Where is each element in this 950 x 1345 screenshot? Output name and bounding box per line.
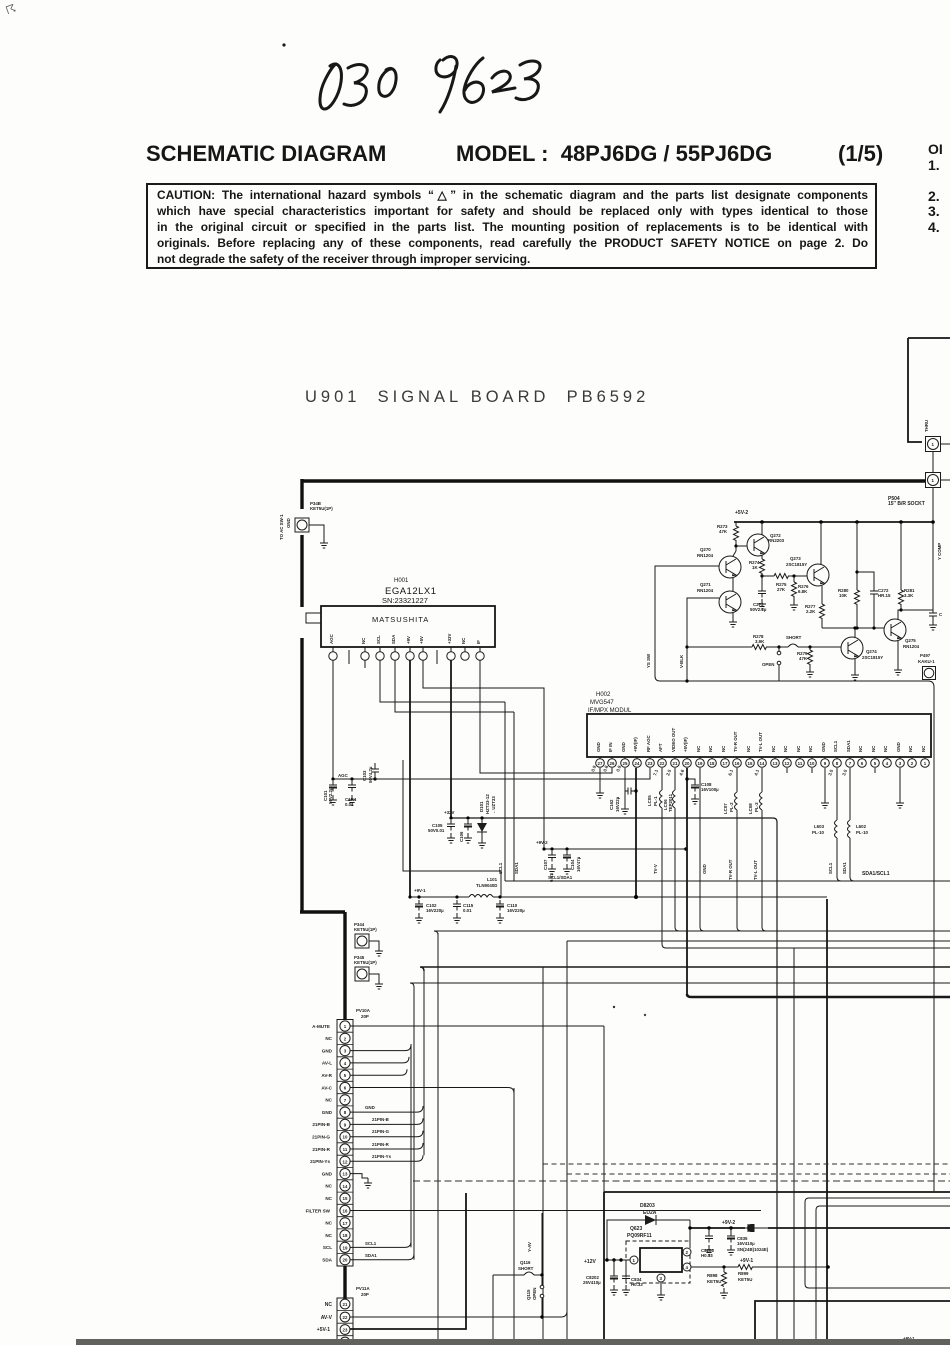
svg-text:R898: R898 bbox=[707, 1273, 718, 1278]
svg-text:20: 20 bbox=[343, 1258, 348, 1263]
svg-text:12: 12 bbox=[785, 761, 790, 766]
wire P345 gnd bbox=[369, 974, 379, 979]
svg-text:GND: GND bbox=[322, 1171, 333, 1176]
inner board corner bbox=[755, 1301, 950, 1345]
svg-text:R899: R899 bbox=[738, 1271, 749, 1276]
svg-text:Y-AV: Y-AV bbox=[527, 1242, 532, 1252]
svg-text:C: C bbox=[939, 612, 943, 617]
wire pin13 gnd bbox=[350, 1174, 368, 1178]
svg-text:19: 19 bbox=[343, 1245, 348, 1250]
svg-text:Q623: Q623 bbox=[630, 1226, 642, 1232]
wire pin3 bbox=[350, 1045, 411, 1051]
svg-text:47K: 47K bbox=[799, 656, 808, 661]
capacitor C1R4 bbox=[348, 781, 356, 792]
svg-text:NC: NC bbox=[721, 745, 726, 752]
wire video out vertical bbox=[675, 808, 679, 931]
svg-text:50V2.2µ: 50V2.2µ bbox=[328, 787, 333, 804]
svg-text:D8203: D8203 bbox=[640, 1203, 655, 1209]
svg-text:+9V-1: +9V-1 bbox=[740, 1258, 753, 1264]
svg-text:SHORT: SHORT bbox=[786, 635, 802, 640]
svg-text:16: 16 bbox=[343, 1209, 348, 1214]
wire SCL1 riser bbox=[504, 702, 506, 881]
svg-text:NC: NC bbox=[808, 745, 813, 752]
capacitor C102 bbox=[415, 900, 423, 911]
svg-text:+5V: +5V bbox=[419, 636, 424, 644]
resistor R276 bbox=[792, 574, 795, 577]
caution notice box bbox=[146, 183, 877, 269]
svg-text:11: 11 bbox=[343, 1147, 348, 1152]
svg-text:3.5: 3.5 bbox=[841, 768, 848, 776]
svg-text:SDA1/SCL1: SDA1/SCL1 bbox=[862, 871, 890, 877]
wire V-BLK branch bbox=[687, 598, 719, 681]
svg-text:RN2203: RN2203 bbox=[768, 538, 785, 543]
svg-text:+5V-1: +5V-1 bbox=[317, 1327, 330, 1333]
svg-text:23: 23 bbox=[343, 1328, 348, 1333]
svg-text:KAKU-1: KAKU-1 bbox=[918, 659, 935, 664]
svg-text:+9V-1: +9V-1 bbox=[414, 888, 426, 893]
capacitor C108 bbox=[685, 777, 688, 780]
svg-text:TV-L OUT: TV-L OUT bbox=[758, 732, 763, 752]
node bus603 bbox=[602, 996, 604, 998]
wire pin24 GND-V bbox=[350, 1341, 610, 1343]
svg-text:IF/MPX MODUL: IF/MPX MODUL bbox=[588, 708, 632, 714]
resistor R279 bbox=[808, 645, 811, 648]
svg-text:2SC1815Y: 2SC1815Y bbox=[786, 562, 807, 567]
wire pin3 gnd bbox=[899, 768, 901, 798]
svg-text:C103: C103 bbox=[362, 770, 367, 781]
wire vertical x414 riser bbox=[413, 987, 415, 1260]
svg-text:SDA1: SDA1 bbox=[365, 1253, 377, 1258]
svg-text:15: 15 bbox=[748, 761, 753, 766]
svg-text:NC: NC bbox=[325, 1036, 332, 1041]
svg-text:PL-1: PL-1 bbox=[653, 796, 658, 806]
inductor L603 bbox=[836, 768, 838, 820]
svg-text:IF IN: IF IN bbox=[608, 742, 613, 752]
capacitor C115 bbox=[453, 900, 461, 911]
svg-text:GND: GND bbox=[596, 742, 601, 752]
svg-text:GND: GND bbox=[821, 742, 826, 752]
svg-text:21PIN-Ys: 21PIN-Ys bbox=[310, 1159, 330, 1164]
svg-text:NC: NC bbox=[771, 745, 776, 752]
wire loop1 tail bbox=[933, 932, 935, 1191]
svg-text:+9V-2: +9V-2 bbox=[536, 840, 548, 845]
svg-text:←UZT33: ←UZT33 bbox=[491, 796, 496, 814]
wire mute row bbox=[687, 646, 752, 648]
svg-text:Q275: Q275 bbox=[905, 638, 916, 643]
svg-text:21PIN-B: 21PIN-B bbox=[312, 1122, 330, 1127]
wire Q273 emitter to R277 bbox=[821, 586, 823, 604]
svg-text:25: 25 bbox=[623, 761, 628, 766]
svg-text:+5V(IF): +5V(IF) bbox=[683, 737, 688, 752]
wire x493 vertical bbox=[492, 1275, 494, 1345]
wire pin19 SCL1 bbox=[350, 1241, 411, 1247]
svg-text:NC: NC bbox=[908, 745, 913, 752]
svg-text:SDA1: SDA1 bbox=[514, 862, 519, 874]
wire vertical x794 bbox=[793, 948, 795, 1345]
svg-text:NC: NC bbox=[325, 1196, 332, 1201]
svg-text:17: 17 bbox=[723, 761, 728, 766]
svg-text:LC08: LC08 bbox=[748, 803, 753, 814]
inductor LC05 bbox=[661, 768, 663, 790]
svg-text:21: 21 bbox=[673, 761, 678, 766]
transistor Q275 bbox=[884, 619, 906, 641]
capacitor C107 bbox=[548, 851, 556, 862]
svg-text:11: 11 bbox=[798, 761, 803, 766]
svg-text:21PIN-G: 21PIN-G bbox=[372, 1129, 390, 1134]
svg-text:PV10A: PV10A bbox=[356, 1008, 371, 1013]
wire pin1 riser bbox=[603, 1026, 605, 1192]
svg-text:15: 15 bbox=[343, 1196, 348, 1201]
svg-text:AV-R: AV-R bbox=[321, 1073, 332, 1078]
wire loop A bbox=[805, 1198, 950, 1288]
svg-text:26: 26 bbox=[610, 761, 615, 766]
wire Q271 emitter to ground bbox=[732, 613, 734, 617]
svg-text:50V2.2µ: 50V2.2µ bbox=[750, 607, 767, 612]
svg-text:7.1: 7.1 bbox=[652, 768, 659, 776]
diode D8203 bbox=[607, 1220, 690, 1260]
svg-text:19: 19 bbox=[698, 761, 703, 766]
capacitor C106 bbox=[464, 820, 472, 831]
board title bbox=[305, 388, 649, 407]
svg-text:SDA: SDA bbox=[391, 634, 396, 644]
svg-text:RF AGC: RF AGC bbox=[646, 735, 651, 752]
svg-text:C106: C106 bbox=[459, 831, 464, 842]
svg-text:SDA1: SDA1 bbox=[846, 740, 851, 752]
svg-text:10K: 10K bbox=[839, 593, 848, 598]
svg-text:SCL: SCL bbox=[376, 635, 381, 644]
svg-text:TV-V: TV-V bbox=[653, 864, 658, 874]
resistor R274 bbox=[760, 559, 765, 573]
wire pin9 gnd bbox=[824, 768, 826, 798]
speck marks bbox=[610, 1004, 650, 1018]
svg-text:H001: H001 bbox=[394, 578, 409, 584]
svg-text:FILTER SW: FILTER SW bbox=[306, 1208, 331, 1213]
wire IF from tuner bbox=[480, 660, 612, 773]
wire Y-AV vertical bbox=[541, 1213, 543, 1275]
svg-text:16V220µ: 16V220µ bbox=[426, 908, 444, 913]
inductor LC07 bbox=[736, 768, 738, 792]
connector P504 socket bbox=[926, 473, 941, 488]
svg-text:Q115: Q115 bbox=[526, 1289, 531, 1300]
svg-text:TLN9040D: TLN9040D bbox=[476, 883, 497, 888]
wire R273 to Q270 collector bbox=[733, 546, 736, 556]
svg-text:P497: P497 bbox=[920, 653, 931, 658]
inductor L602 bbox=[849, 768, 851, 820]
svg-text:AFT: AFT bbox=[658, 743, 663, 752]
svg-text:+5V-2: +5V-2 bbox=[735, 510, 748, 516]
svg-text:Q273: Q273 bbox=[790, 556, 801, 561]
svg-text:Q270: Q270 bbox=[700, 547, 711, 552]
svg-text:SCL: SCL bbox=[323, 1245, 332, 1250]
capacitor C8203 bbox=[708, 1228, 710, 1232]
svg-text:TO AC SW-1: TO AC SW-1 bbox=[279, 514, 284, 540]
wire vertical x411 riser bbox=[410, 1044, 412, 1247]
svg-text:22: 22 bbox=[660, 761, 665, 766]
H002 pins 27..1 bbox=[596, 757, 930, 767]
svg-text:TV-R OUT: TV-R OUT bbox=[733, 731, 738, 752]
node V-BLK to mute row bbox=[685, 645, 688, 648]
wire pin1 A-MUTE bbox=[350, 1025, 604, 1027]
inductor LC08 bbox=[761, 768, 763, 792]
resistor R281 bbox=[900, 522, 902, 590]
svg-text:3.9K: 3.9K bbox=[755, 639, 765, 644]
svg-text:14: 14 bbox=[760, 761, 765, 766]
wire pin19 vertical bbox=[700, 768, 704, 931]
svg-text:GND: GND bbox=[365, 1105, 375, 1110]
svg-text:6.1: 6.1 bbox=[727, 768, 734, 776]
svg-text:13: 13 bbox=[773, 761, 778, 766]
svg-text:16V100µ: 16V100µ bbox=[701, 787, 719, 792]
svg-text:KET5U(1P): KET5U(1P) bbox=[354, 960, 377, 965]
capacitor C8202 bbox=[613, 1260, 615, 1272]
svg-text:THRU: THRU bbox=[924, 420, 929, 432]
svg-text:OPEN: OPEN bbox=[762, 662, 774, 667]
wire Q275 collector bbox=[898, 610, 901, 619]
svg-text:+12V: +12V bbox=[584, 1259, 596, 1265]
wire +9V from tuner to rail bbox=[409, 660, 411, 897]
svg-text:24: 24 bbox=[635, 761, 640, 766]
svg-text:16: 16 bbox=[735, 761, 740, 766]
wire pin21 stub bbox=[787, 768, 875, 773]
svg-text:21PIN-R: 21PIN-R bbox=[372, 1142, 390, 1147]
svg-text:Q271: Q271 bbox=[700, 582, 711, 587]
svg-text:D101: D101 bbox=[479, 801, 484, 812]
wire SDA from tuner bbox=[395, 660, 514, 712]
svg-text:27: 27 bbox=[598, 761, 603, 766]
svg-text:SN:23321227: SN:23321227 bbox=[382, 596, 428, 605]
wire +9V-1 rail bbox=[410, 896, 827, 898]
wire NC stub bbox=[364, 660, 366, 668]
transistor Q272 bbox=[747, 534, 769, 556]
svg-text:PL-10: PL-10 bbox=[856, 830, 869, 835]
svg-text:MVG547: MVG547 bbox=[590, 700, 614, 706]
svg-text:Q274: Q274 bbox=[866, 649, 877, 654]
wire vertical x567 bbox=[566, 941, 568, 1345]
resistor R273 bbox=[735, 522, 737, 526]
svg-text:L603: L603 bbox=[814, 824, 825, 829]
capacitor C104 bbox=[563, 851, 571, 862]
resistor R278 bbox=[752, 645, 766, 650]
svg-text:21: 21 bbox=[343, 1302, 348, 1307]
svg-text:GND: GND bbox=[322, 1048, 333, 1053]
wire pin4 bbox=[350, 1057, 409, 1063]
H001 pin labels bbox=[329, 633, 481, 644]
svg-text:NC: NC bbox=[708, 745, 713, 752]
wire inner frame bbox=[403, 760, 501, 897]
wire pin16 FILTER SW bbox=[350, 1210, 761, 1212]
transistor Q270 bbox=[719, 556, 741, 578]
svg-text:NC: NC bbox=[696, 745, 701, 752]
wire pin9 21PIN-B bbox=[350, 1118, 423, 1124]
wire P503 to P504 bbox=[933, 444, 950, 480]
capacitor C105 bbox=[447, 820, 455, 831]
svg-text:+33V: +33V bbox=[447, 634, 452, 644]
svg-text:TEP2011: TEP2011 bbox=[668, 793, 673, 812]
node R273/Q272 base bbox=[734, 544, 737, 547]
board left border lower segment bbox=[343, 1266, 346, 1301]
board left border wire bbox=[300, 479, 345, 1020]
resistor R277 bbox=[820, 604, 825, 618]
svg-text:2SC1815Y: 2SC1815Y bbox=[862, 655, 883, 660]
resistor R898 bbox=[722, 1265, 725, 1268]
svg-text:NC: NC bbox=[746, 745, 751, 752]
capacitor C274 bbox=[929, 610, 937, 620]
wire dashed y1172 bbox=[567, 1173, 950, 1175]
wire +5V-2 rail bbox=[734, 521, 933, 523]
tuner H001 body bbox=[321, 606, 495, 647]
svg-text:17: 17 bbox=[343, 1221, 348, 1226]
wire TV-R OUT vertical bbox=[737, 810, 741, 931]
svg-text:16V220µ: 16V220µ bbox=[507, 908, 525, 913]
wire Q623 pin3 gnd bbox=[660, 1282, 662, 1290]
wire +9V-2 bbox=[544, 848, 687, 850]
svg-text:13: 13 bbox=[343, 1172, 348, 1177]
header line bbox=[146, 141, 386, 167]
svg-text:GND: GND bbox=[702, 864, 707, 874]
antenna stub bbox=[306, 613, 321, 623]
wire bus y963 bbox=[420, 967, 950, 971]
wire +12V node bbox=[604, 1259, 630, 1261]
svg-text:10: 10 bbox=[343, 1135, 348, 1140]
svg-text:+9V: +9V bbox=[406, 636, 411, 644]
svg-text:VIDEO OUT: VIDEO OUT bbox=[671, 728, 676, 752]
svg-text:20P: 20P bbox=[361, 1292, 369, 1297]
H001 pins bbox=[329, 647, 484, 664]
wire pin5 bbox=[350, 1069, 407, 1075]
wire TV-V vertical bbox=[662, 808, 950, 948]
wire vertical x439 bbox=[437, 933, 439, 1345]
svg-text:GND: GND bbox=[286, 518, 291, 528]
svg-text:12: 12 bbox=[343, 1159, 348, 1164]
capacitor C103 bbox=[371, 763, 379, 779]
svg-text:2.2K: 2.2K bbox=[806, 609, 816, 614]
svg-text:PQ09RF11: PQ09RF11 bbox=[627, 1233, 652, 1239]
svg-text:3.3K: 3.3K bbox=[904, 593, 914, 598]
svg-text:16V47µ: 16V47µ bbox=[576, 856, 581, 872]
svg-text:RN1204: RN1204 bbox=[903, 644, 920, 649]
svg-text:HZT33-12: HZT33-12 bbox=[485, 794, 490, 814]
module H002 body bbox=[587, 714, 931, 757]
wire main thick bus y997 bbox=[687, 994, 950, 997]
svg-text:V-BLK: V-BLK bbox=[679, 654, 684, 668]
svg-text:4.1: 4.1 bbox=[753, 768, 760, 776]
svg-text:0.01: 0.01 bbox=[463, 908, 472, 913]
svg-text:NC: NC bbox=[325, 1184, 332, 1189]
wire from P504 down bbox=[932, 488, 934, 610]
capacitor C272 bbox=[857, 572, 878, 628]
wire pin12 21PIN-Ys bbox=[350, 1155, 423, 1161]
wire +5V from tuner bbox=[423, 660, 544, 849]
jumper OPEN bbox=[778, 647, 780, 681]
capacitor C273 bbox=[758, 587, 766, 598]
svg-text:L602: L602 bbox=[856, 824, 867, 829]
svg-text:18: 18 bbox=[710, 761, 715, 766]
svg-text:6.8K: 6.8K bbox=[798, 589, 808, 594]
svg-text:GND: GND bbox=[896, 742, 901, 752]
wire pin23 +5V-1 bbox=[350, 1193, 466, 1329]
capacitor C835 bbox=[730, 1228, 732, 1232]
svg-text:NC: NC bbox=[361, 637, 366, 644]
wire Q270 emitter to Q271 collector bbox=[732, 578, 734, 591]
wire Q275 emitter ground bbox=[897, 641, 899, 665]
top right equipment box bbox=[908, 338, 950, 442]
svg-text:C162: C162 bbox=[609, 799, 614, 810]
svg-text:27K: 27K bbox=[777, 587, 786, 592]
wire Q274 emitter ground bbox=[854, 659, 856, 670]
connector P34B to AC switch bbox=[295, 518, 309, 532]
wire AGC net bbox=[333, 660, 650, 779]
capacitor C110 bbox=[496, 900, 504, 911]
svg-text:NC: NC bbox=[921, 745, 926, 752]
svg-text:4.6: 4.6 bbox=[678, 768, 685, 776]
svg-text:LC07: LC07 bbox=[723, 803, 728, 814]
resistor R275 bbox=[774, 574, 788, 579]
svg-text:KET5U(1P): KET5U(1P) bbox=[310, 506, 333, 511]
wire P34B to ground bbox=[309, 525, 324, 538]
svg-text:SDA1: SDA1 bbox=[842, 862, 847, 874]
capacitor C835 series bbox=[745, 1224, 768, 1232]
svg-text:Y COMP: Y COMP bbox=[937, 543, 942, 560]
svg-text:AV-C: AV-C bbox=[321, 1085, 332, 1090]
wire I2C bus horizontal bbox=[505, 880, 950, 882]
block frame bbox=[604, 1192, 950, 1345]
svg-text:+9V(IF): +9V(IF) bbox=[633, 737, 638, 752]
wire vertical x514 bbox=[513, 1088, 515, 1345]
svg-text:NC: NC bbox=[325, 1098, 332, 1103]
connector P503 socket bbox=[926, 437, 941, 452]
wire Q272 emitter to rail bbox=[761, 522, 763, 535]
voltage marks bbox=[590, 764, 848, 776]
svg-text:SN(24B)1024E): SN(24B)1024E) bbox=[737, 1247, 769, 1252]
svg-text:RN1204: RN1204 bbox=[697, 553, 714, 558]
svg-text:NC: NC bbox=[871, 745, 876, 752]
svg-text:NC: NC bbox=[325, 1233, 332, 1238]
svg-text:NC: NC bbox=[796, 745, 801, 752]
svg-text:C107: C107 bbox=[543, 859, 548, 870]
svg-text:KET5U: KET5U bbox=[707, 1279, 721, 1284]
wire +33V from tuner bbox=[450, 660, 452, 818]
wire Q273 collector to rail bbox=[820, 522, 822, 565]
svg-text:21PIN-G: 21PIN-G bbox=[312, 1135, 330, 1140]
corner smudge bbox=[4, 2, 18, 18]
wire P344 gnd bbox=[369, 941, 379, 946]
resistor R280 bbox=[856, 522, 858, 590]
svg-text:L101: L101 bbox=[487, 877, 498, 882]
wire bus y932 bbox=[434, 931, 950, 935]
wire vertical x423 collector bbox=[423, 971, 425, 1155]
svg-text:50V4.7µ: 50V4.7µ bbox=[368, 766, 373, 783]
svg-text:AGC: AGC bbox=[338, 773, 349, 778]
svg-text:KET5U(1P): KET5U(1P) bbox=[354, 927, 377, 932]
board top border wire bbox=[301, 479, 925, 482]
svg-text:SDA: SDA bbox=[322, 1258, 332, 1263]
svg-text:10: 10 bbox=[810, 761, 815, 766]
svg-text:PL-2: PL-2 bbox=[729, 802, 734, 812]
wire +5V(IF) main vertical bbox=[686, 768, 688, 994]
svg-text:SHORT: SHORT bbox=[518, 1266, 534, 1271]
right margin clipped text bbox=[928, 142, 943, 235]
svg-text:47K: 47K bbox=[719, 529, 728, 534]
transistor Q274 bbox=[841, 637, 863, 659]
wire SCL1 hook bbox=[837, 838, 841, 881]
svg-text:IF: IF bbox=[476, 640, 481, 644]
svg-text:21PIN-B: 21PIN-B bbox=[372, 1117, 389, 1122]
wire R278 to jumper bbox=[766, 646, 779, 648]
wire dashed y1164 bbox=[543, 1163, 950, 1165]
wire R281 node to cap bbox=[901, 609, 933, 611]
wire SDA1 hook bbox=[850, 838, 854, 881]
wire pin20 SDA1 bbox=[350, 1254, 414, 1260]
